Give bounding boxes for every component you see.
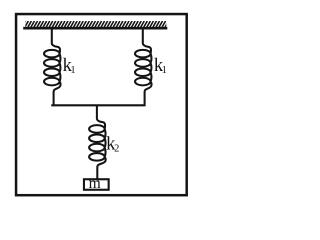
- ceiling hatching: [21, 21, 168, 28]
- svg-text:m: m: [89, 175, 101, 192]
- mass m box: [84, 179, 109, 190]
- bar joining springs: [51, 104, 145, 106]
- spring k1 (left) with connecting wires: [44, 29, 61, 106]
- ceiling line: [23, 27, 167, 30]
- svg-text:1: 1: [162, 65, 167, 76]
- spring k2 with connecting wires: [89, 105, 106, 181]
- spring k1 (right) with connecting wires: [135, 29, 152, 106]
- svg-text:1: 1: [70, 65, 75, 76]
- svg-text:2: 2: [114, 144, 119, 155]
